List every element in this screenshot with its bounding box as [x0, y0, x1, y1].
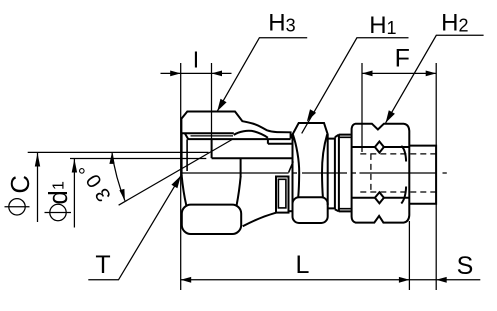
nut lip chamfer: [185, 133, 188, 139]
ring band top/bottom: [339, 135, 351, 212]
hidden thread dashed lines: [360, 154, 436, 192]
right hex face arcs: [401, 146, 406, 204]
dimension F line: [362, 72, 436, 74]
dimension I line: [161, 72, 232, 74]
30 degree arc with arrows: [112, 152, 125, 200]
dimension F arrows: [362, 71, 373, 77]
middle hex outline: [293, 123, 328, 205]
dimension L/S line: [181, 221, 481, 290]
ring chamfers: [335, 135, 339, 212]
dimension phi d1: line, stem arrow, rotated label: [70, 159, 206, 228]
middle hex facet band (rounded): [293, 197, 328, 223]
socket left facet edge: [182, 175, 187, 205]
socket right facet edge: [237, 176, 241, 205]
hose end line: [186, 139, 188, 171]
slot inner rect: [278, 179, 286, 208]
svg-text:C: C: [7, 175, 35, 193]
dimension I arrows: [170, 71, 181, 77]
threaded stub: [409, 146, 436, 204]
svg-text:L: L: [296, 251, 310, 279]
svg-text:d: d: [45, 190, 73, 204]
body taper curve: [243, 213, 276, 227]
sleeve outline (crimp ferrule, section top): [181, 112, 290, 139]
ring band left edge: [334, 137, 336, 209]
middle hex right facet curve: [322, 134, 327, 197]
neck bottom short line: [289, 210, 293, 212]
socket right section edge: [240, 158, 242, 176]
right hex facet line top with diamond: [352, 146, 410, 148]
sleeve inner line: [181, 132, 233, 134]
neck band top and bottom: [328, 139, 335, 209]
sleeve inner line 2: [191, 135, 234, 137]
nut bore step edge: [211, 139, 213, 158]
nut lip bottom line: [188, 138, 291, 140]
svg-text:1: 1: [51, 181, 68, 190]
socket hex facet band (rounded): [182, 205, 241, 234]
middle hex left facet curve: [293, 134, 299, 197]
right hex facet line bottom with diamond: [352, 197, 410, 199]
svg-text:S: S: [457, 252, 474, 280]
right hex outline: [352, 124, 410, 223]
slot outer rect: [276, 177, 289, 213]
socket left face: [181, 133, 183, 176]
svg-text:I: I: [193, 46, 199, 72]
lip step and lower lip line: [268, 139, 293, 144]
dimension I extension lines: [181, 63, 212, 290]
ring inner lines: [339, 137, 351, 208]
nut bore line: [212, 157, 293, 159]
dimension phiC: line, stem arrow, rotated label: [28, 152, 209, 222]
centerline: [181, 172, 447, 174]
ring divider: [338, 135, 340, 212]
svg-text:T: T: [95, 251, 110, 279]
dimension F extension lines: [362, 63, 436, 290]
hex-left diagonal: [289, 162, 294, 173]
sleeve hump arc: [234, 131, 268, 138]
30 degree line: [119, 140, 233, 206]
svg-text:F: F: [395, 44, 410, 72]
